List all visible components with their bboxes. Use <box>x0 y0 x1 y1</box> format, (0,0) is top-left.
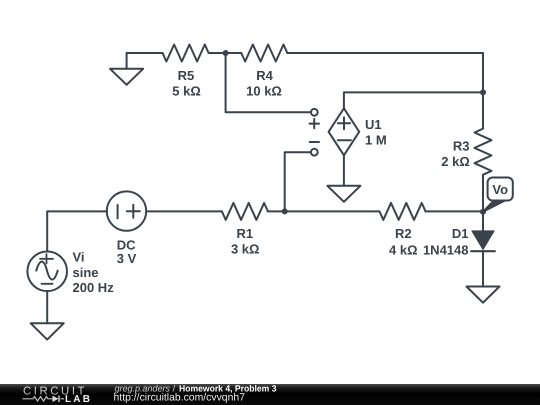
op-amp U1 (dependent source diamond) <box>329 108 387 155</box>
wire Vi bottom to ground <box>46 291 48 323</box>
wire U1 bottom to ground <box>343 155 345 186</box>
node Vo flag <box>483 178 513 212</box>
svg-text:R5: R5 <box>178 68 195 83</box>
voltage source V2 (DC) <box>107 191 146 266</box>
svg-text:http://circuitlab.com/cvvqnh7: http://circuitlab.com/cvvqnh7 <box>114 392 246 404</box>
U1 minus terminal mark <box>310 141 319 143</box>
resistor R3 <box>441 92 491 211</box>
svg-text:4 kΩ: 4 kΩ <box>389 243 418 258</box>
resistor R2 <box>380 203 426 258</box>
ground (top-left) <box>110 53 143 85</box>
voltage source Vi (sine) <box>27 250 114 295</box>
svg-text:Vo: Vo <box>492 182 508 197</box>
wire R5 to node <box>209 52 242 54</box>
svg-text:R2: R2 <box>395 226 412 241</box>
svg-text:DC: DC <box>117 237 136 252</box>
wire R1 to R2 <box>268 210 380 212</box>
wire D1 to ground <box>482 251 484 286</box>
wire ground to R5 <box>127 52 163 54</box>
resistor R4 <box>241 45 287 99</box>
svg-text:1 M: 1 M <box>365 133 387 148</box>
node junction top-right <box>480 89 486 95</box>
resistor R1 <box>222 203 268 257</box>
node junction R1/U1 sense <box>282 208 288 214</box>
svg-text:10 kΩ: 10 kΩ <box>246 84 282 99</box>
ground (under U1) <box>327 186 360 202</box>
svg-text:2 kΩ: 2 kΩ <box>441 154 470 169</box>
svg-text:D1: D1 <box>452 226 469 241</box>
CircuitLab logo <box>23 386 93 405</box>
svg-text:200 Hz: 200 Hz <box>73 280 115 295</box>
node Vo junction <box>480 209 486 215</box>
svg-text:5 kΩ: 5 kΩ <box>172 84 201 99</box>
svg-text:R3: R3 <box>453 139 470 154</box>
U1 sense terminal minus <box>311 149 318 156</box>
diode D1 <box>423 212 495 258</box>
svg-text:U1: U1 <box>365 117 382 132</box>
svg-text:1N4148: 1N4148 <box>423 243 469 258</box>
ground (under D1) <box>467 287 500 303</box>
wire DC left to Vi <box>47 211 107 251</box>
svg-text:R1: R1 <box>236 226 253 241</box>
svg-text:sine: sine <box>73 265 99 280</box>
svg-text:3 V: 3 V <box>117 251 137 266</box>
svg-text:R4: R4 <box>256 68 273 83</box>
wire node down to U1 plus sense terminal <box>226 53 311 112</box>
footer credit text <box>114 383 277 403</box>
U1 plus terminal mark <box>310 119 320 128</box>
svg-text:LAB: LAB <box>65 394 92 405</box>
U1 sense terminal plus <box>311 109 318 116</box>
resistor R5 <box>163 45 209 99</box>
wire U1 minus sense terminal to node at R1 <box>285 152 311 211</box>
wire R2 to Vo node <box>426 210 484 212</box>
svg-text:Vi: Vi <box>73 250 85 265</box>
ground (under Vi) <box>31 323 64 339</box>
wire R4 to top-right corner <box>287 53 483 92</box>
wire DC right to R1 <box>146 210 222 212</box>
svg-text:3 kΩ: 3 kΩ <box>231 242 260 257</box>
node junction R5/R4 <box>223 50 229 56</box>
wire U1 output top to right node <box>344 92 483 108</box>
